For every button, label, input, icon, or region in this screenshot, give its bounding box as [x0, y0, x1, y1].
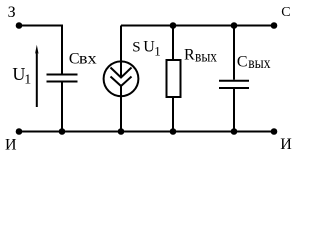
svg-text:И: И — [5, 136, 17, 153]
terminal dot З — [16, 22, 23, 29]
junction dot bottom Cвых — [231, 128, 238, 135]
wire top-left rail — [19, 26, 62, 74]
label Cвых — [237, 53, 271, 72]
wire current source top stub — [120, 26, 122, 64]
wire top rail right segment — [121, 25, 274, 27]
junction dot top of Rвых — [170, 22, 177, 29]
wire Rвых bottom stub — [172, 97, 174, 132]
wire Cвх to bottom rail — [61, 83, 63, 132]
wire Cвых bottom stub — [233, 89, 235, 132]
capacitor Cвх — [47, 75, 78, 82]
wire bottom rail — [19, 131, 274, 133]
svg-text:С: С — [281, 5, 290, 20]
svg-text:З: З — [8, 4, 16, 21]
svg-text:вх: вх — [79, 50, 97, 67]
label U1 — [12, 64, 31, 88]
junction dot bottom Rвых — [170, 128, 177, 135]
svg-text:И: И — [280, 136, 292, 153]
terminal dot И left — [16, 128, 23, 135]
svg-text:1: 1 — [24, 73, 31, 88]
wire Cвых top stub — [233, 26, 235, 80]
label Rвых — [184, 47, 217, 66]
svg-text:1: 1 — [154, 43, 161, 58]
svg-text:C: C — [237, 53, 248, 70]
label Cвх — [69, 50, 97, 67]
current source double-arrow symbol — [111, 62, 132, 96]
current source SU1 circle — [104, 61, 139, 96]
svg-text:вых: вых — [248, 55, 270, 72]
wire current source bottom stub — [120, 95, 122, 132]
svg-text:S: S — [132, 40, 140, 56]
resistor Rвых — [167, 60, 181, 97]
terminal dot С — [271, 22, 278, 29]
junction dot bottom current source — [118, 128, 125, 135]
svg-text:R: R — [184, 47, 195, 64]
terminal dot И right — [271, 128, 278, 135]
junction dot bottom Cвх — [59, 128, 66, 135]
svg-text:вых: вых — [195, 49, 217, 66]
voltage arrow U1 — [35, 45, 39, 107]
capacitor Cвых — [219, 81, 249, 88]
junction dot top of Cвых — [231, 22, 238, 29]
wire Rвых top stub — [172, 26, 174, 62]
label S U1 — [132, 39, 160, 59]
